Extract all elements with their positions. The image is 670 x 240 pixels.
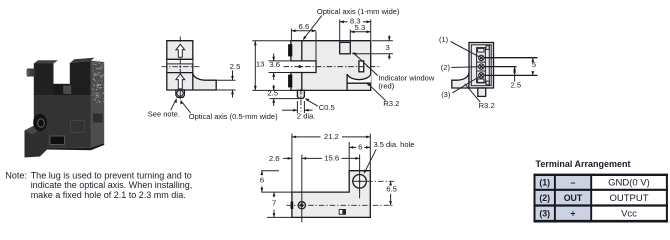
svg-text:(1): (1) [539, 178, 550, 188]
dim 3 extension lines [372, 40, 393, 42]
svg-text:3: 3 [386, 43, 390, 52]
svg-text:Note:: Note: [5, 170, 27, 180]
svg-text:The lug is used to prevent tur: The lug is used to prevent turning and t… [31, 170, 192, 180]
svg-text:R3.2: R3.2 [479, 101, 495, 110]
R3.2 front leader [367, 83, 386, 101]
bottom view horizontal centerline [287, 204, 395, 206]
pin 1 [479, 55, 484, 60]
dim 6 top extension line [348, 142, 350, 171]
svg-text:Vcc: Vcc [621, 208, 637, 219]
photo bottom edge sliver [34, 143, 104, 150]
svg-text:GND(0 V): GND(0 V) [608, 178, 650, 189]
dim 5.3 line [350, 31, 370, 33]
photo right side face [91, 61, 105, 148]
side view vertical centerline [179, 37, 181, 102]
front view lower black window [288, 75, 292, 88]
bottom view lug vertical line [301, 155, 303, 223]
front view R3.2 arc [347, 74, 371, 79]
dim 6.6 line [291, 30, 316, 32]
photo right tower [70, 58, 95, 63]
indicator window leader [354, 53, 378, 75]
pin 3 [479, 73, 484, 78]
bottom view 3.5 dia hole [353, 175, 367, 189]
svg-text:Optical axis (1-mm wide): Optical axis (1-mm wide) [317, 7, 400, 16]
connector foot [452, 73, 469, 89]
front view lug centerline [300, 89, 302, 112]
svg-text:5.3: 5.3 [355, 23, 366, 32]
svg-text:OUTPUT: OUTPUT [609, 193, 648, 204]
bottom view group [260, 132, 415, 222]
photo slot floor [54, 84, 70, 95]
hole vertical extension line [359, 155, 361, 199]
pin2 extension line [484, 66, 517, 68]
optical axis 0.5mm leader [181, 101, 190, 113]
dim 3 arrows [388, 36, 390, 41]
svg-text:See note.: See note. [148, 109, 180, 118]
svg-text:6: 6 [358, 143, 362, 152]
svg-text:+: + [570, 208, 575, 218]
svg-text:5: 5 [532, 60, 536, 69]
svg-text:6.5: 6.5 [386, 185, 397, 194]
dim 6 top line [349, 146, 356, 148]
dim 2.6 arrow [283, 157, 292, 159]
svg-text:(2): (2) [539, 193, 550, 203]
connector strip bottom latch [478, 79, 484, 82]
side view seam line 1 [167, 58, 193, 60]
pin3 extension line [484, 74, 538, 76]
dim 5.3 extension line [349, 30, 351, 43]
3.5 dia hole leader [365, 149, 377, 172]
svg-text:6: 6 [260, 176, 264, 185]
dim 7 extension line [267, 216, 292, 218]
svg-text:–: – [571, 178, 576, 188]
connector bottom-right nub [486, 81, 489, 85]
product photo: sensor 3D view [25, 58, 105, 158]
side view seam band [167, 60, 192, 64]
dim 13 line [254, 41, 256, 91]
dim 6.6 extension line [290, 29, 292, 41]
bottom view indicator square [339, 210, 345, 215]
photo bottom connector recess [50, 136, 66, 146]
front view notch left wall [346, 74, 348, 90]
connector outer rect [469, 43, 494, 89]
svg-text:3.6: 3.6 [269, 60, 280, 69]
photo body molded panel line [71, 121, 85, 133]
svg-text:2.6: 2.6 [269, 154, 280, 163]
side view horizontal centerline [162, 66, 202, 68]
connector strip top latch [478, 49, 484, 52]
front view indicator window square [340, 42, 351, 53]
connector inner wall line [488, 45, 490, 86]
svg-text:(3): (3) [441, 90, 451, 99]
front view upper black window [288, 44, 292, 56]
dim 3.6 extension lines [269, 60, 291, 62]
photo foreground foot [25, 123, 48, 158]
svg-text:C0.5: C0.5 [319, 103, 335, 112]
photo left tower [34, 60, 58, 63]
dim 2.5 front arrows [273, 85, 275, 91]
front view R3.2 notch white area [347, 74, 371, 83]
pin1 extension line [484, 57, 538, 59]
front view notch bottom line [347, 82, 371, 84]
note text block [5, 170, 192, 200]
side view lug hole circle [177, 90, 183, 96]
connector bottom tab [478, 88, 486, 96]
see note leader [171, 100, 176, 111]
pin 2 [479, 64, 484, 69]
photo side face speckle texture [92, 59, 105, 103]
svg-text:(1): (1) [439, 35, 449, 44]
hole horizontal centerline [352, 180, 367, 182]
side view body outline with foot [167, 41, 216, 90]
dim 6 left extension lines [261, 170, 279, 172]
table row 2 [539, 193, 648, 204]
dim 21.2 line [292, 136, 321, 138]
svg-text:indicate the optical axis. Whe: indicate the optical axis. When installi… [31, 180, 193, 190]
svg-text:15.6: 15.6 [324, 154, 339, 163]
svg-text:21.2: 21.2 [324, 132, 339, 141]
front view group [252, 22, 381, 121]
side view 2.5 dim extension lines [216, 79, 235, 81]
dim 2 dia arrows [282, 109, 297, 111]
table row 3 [539, 208, 637, 219]
front view lug [297, 90, 304, 98]
side view optical axis arrow bottom [176, 74, 185, 89]
dim 15.6 line [302, 157, 322, 159]
side view optical axis arrow top [176, 44, 185, 57]
dim 13 extension lines [252, 40, 291, 42]
photo side face indicator square [93, 114, 103, 123]
dim 2 dia extension ticks [296, 101, 298, 113]
bottom view black window tick [291, 202, 294, 209]
side view slot bottom line [167, 72, 193, 74]
bottom view body outline [292, 171, 370, 218]
front view optical axis vertical line lower [301, 73, 303, 91]
photo main body front face [34, 95, 91, 148]
front view body outline with slot [291, 41, 371, 91]
svg-text:OUT: OUT [564, 193, 583, 203]
optical axis 1mm leader [304, 16, 322, 39]
connector top-right nub [486, 46, 489, 50]
svg-text:6.6: 6.6 [299, 22, 310, 31]
dim 2.5 right arrows [514, 67, 516, 82]
dim 2.5 front extension line [270, 98, 304, 100]
dim 5 arrows [532, 58, 534, 61]
dim 8.3 extension lines [339, 20, 341, 43]
right connector view group [439, 35, 538, 110]
side view right edge inner line [192, 73, 194, 90]
svg-text:(red): (red) [378, 81, 394, 90]
connector terminal strip [477, 48, 486, 83]
front view centerline arrowhead [299, 65, 304, 68]
side view 2.5 dim arrows [232, 71, 234, 81]
connector inner rect [471, 45, 491, 86]
front view optical axis vertical line upper [301, 41, 303, 61]
dim 3.6 arrows [273, 54, 275, 61]
photo foreground lug blob [33, 114, 47, 131]
terminal arrangement table [534, 159, 669, 222]
svg-text:Terminal Arrangement: Terminal Arrangement [536, 159, 631, 169]
side view seam line 2 [167, 63, 193, 65]
svg-text:make a fixed hole of 2.1 to 2.: make a fixed hole of 2.1 to 2.3 mm dia. [31, 190, 186, 200]
C0.5 leader [306, 99, 318, 106]
bottom view lug ring [298, 202, 305, 209]
svg-text:7: 7 [272, 199, 276, 208]
dim 7 line [273, 192, 275, 197]
svg-text:2 dia.: 2 dia. [297, 111, 316, 120]
connector strip cell dividers [477, 61, 486, 63]
svg-text:3.5 dia. hole: 3.5 dia. hole [374, 140, 415, 149]
dim 8.3 line [340, 21, 348, 23]
svg-text:2.5: 2.5 [510, 81, 521, 90]
svg-text:13: 13 [256, 60, 265, 69]
front view top dims group [303, 7, 435, 108]
svg-text:2.5: 2.5 [267, 89, 278, 98]
svg-text:(2): (2) [441, 63, 451, 72]
table shading col1 col2 [535, 175, 592, 221]
front view slot end extension line [315, 31, 317, 61]
svg-text:2.5: 2.5 [230, 62, 241, 71]
front view horizontal centerline [284, 66, 382, 68]
table row 1 [539, 178, 650, 189]
dim 6.5 line [390, 181, 392, 185]
svg-text:Optical axis (0.5-mm wide): Optical axis (0.5-mm wide) [189, 112, 278, 121]
svg-text:(3): (3) [539, 208, 550, 218]
side view lug [176, 90, 185, 97]
side view group [148, 37, 278, 121]
dim 6 left line [261, 171, 263, 176]
table borders [534, 174, 669, 223]
front view small center rectangle [359, 61, 364, 72]
dim 21.2 extension lines [291, 134, 293, 193]
photo left nub (lug) [27, 69, 35, 77]
